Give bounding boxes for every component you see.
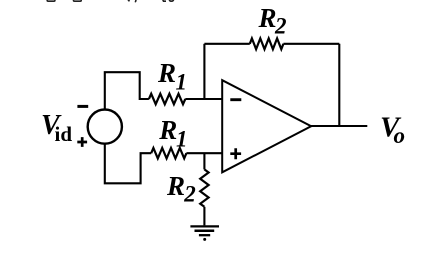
resistor R1 (bottom, non-inverting input) zigzag — [151, 148, 186, 158]
resistor R1 (top, inverting input) zigzag — [149, 94, 185, 104]
wire: source bottom terminal down, right and up to R1 (bottom) — [105, 143, 151, 183]
wire: source top terminal up and right to R1 (top) — [105, 72, 149, 110]
source polarity plus sign — [77, 137, 87, 147]
ground bar 1 — [190, 225, 219, 227]
label R2 (grounding resistor) — [166, 171, 196, 207]
wire: op-amp output to Vo — [311, 125, 367, 127]
label R1 (bottom resistor) — [158, 115, 187, 152]
resistor R2 (to ground) vertical zigzag — [200, 169, 208, 206]
svg-text:R: R — [158, 115, 177, 145]
svg-text:R: R — [157, 58, 176, 88]
op-amp inverting input minus sign — [230, 98, 241, 101]
ground dot — [203, 238, 206, 241]
op-amp non-inverting input plus sign — [230, 148, 241, 159]
svg-text:1: 1 — [176, 127, 188, 152]
svg-text:1: 1 — [176, 69, 188, 94]
ground bar 3 — [199, 234, 210, 236]
svg-text:id: id — [55, 122, 73, 146]
svg-text:o: o — [394, 123, 406, 148]
ground bar 2 — [195, 229, 215, 232]
label V_o (output) — [380, 112, 405, 149]
resistor R2 (feedback) zigzag — [250, 38, 284, 49]
wire: R2 bottom to ground — [203, 207, 205, 226]
op-amp U1 triangle — [222, 80, 311, 172]
svg-text:R: R — [166, 171, 185, 201]
wire: non-inverting node down to R2 (bottom) — [203, 153, 205, 169]
wire: R1 bottom to op-amp non-inverting input, through R2 node — [186, 152, 222, 154]
label R1 (top resistor) — [157, 58, 187, 94]
svg-text:2: 2 — [274, 14, 287, 39]
wire: feedback top left segment — [204, 43, 249, 45]
label R2 (feedback resistor) — [258, 3, 287, 39]
source polarity minus sign — [77, 105, 88, 108]
svg-text:2: 2 — [183, 182, 196, 207]
wire: feedback top right segment — [283, 43, 339, 45]
svg-text:R: R — [258, 3, 277, 33]
wire: feedback left vertical from inverting node up — [203, 44, 205, 99]
label V_id (input source) — [41, 110, 72, 146]
cropped text fragment (top edge, letter bottoms) — [47, 0, 173, 2]
wire: feedback right vertical down to output — [338, 44, 340, 126]
wire: R1 top to op-amp inverting input, through feedback node — [185, 98, 222, 100]
voltage source V_id circle — [88, 110, 122, 144]
